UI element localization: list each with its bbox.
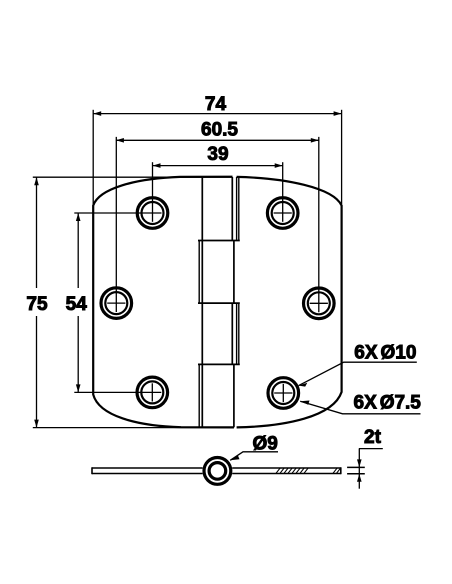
side view hatch group 1 (276, 468, 308, 473)
leader 6X Ø7.5 (300, 401, 420, 414)
side view bar left bottom edge (92, 473, 203, 475)
dim 60.5 line (116, 139, 319, 141)
svg-text:6X: 6X (354, 343, 378, 364)
side view bar left top edge (92, 467, 203, 469)
dim 54 extension bottom (74, 391, 161, 393)
side view knuckle ring inner (pin hole) (209, 463, 226, 480)
svg-text:75: 75 (26, 294, 48, 315)
crosshair hole bottom-left vertical (151, 383, 153, 401)
plate left leaf outline (93, 177, 234, 428)
arrowhead dim 2t top (357, 459, 362, 467)
dim 74 extension left (92, 110, 94, 204)
dim 75 extension top (33, 176, 233, 178)
dim 2t underline (359, 448, 383, 450)
arrowhead dim 75 bottom (34, 420, 39, 428)
knuckle step line 3 (198, 363, 240, 365)
arrowhead dim 75 top (34, 177, 39, 185)
dim 60.5 extension right (318, 137, 320, 312)
side view bar right top edge (232, 467, 341, 469)
svg-text:Ø10: Ø10 (381, 343, 417, 364)
knuckle bend line left leaf (201, 177, 203, 427)
dim 2t extension tick top (347, 466, 365, 468)
dim 54 line upper part (77, 213, 79, 288)
plate right leaf outline (237, 177, 342, 428)
hole top-right inner (272, 202, 294, 224)
arrowhead leader 6X Ø7.5 (300, 401, 309, 405)
arrowhead dim 39 right (275, 163, 283, 168)
dim 60.5 extension left (115, 137, 117, 312)
arrowhead dim 74 left (93, 111, 101, 116)
svg-text:60.5: 60.5 (201, 120, 238, 141)
hole bottom-left inner (141, 381, 163, 403)
dim 39 line (153, 165, 283, 167)
svg-text:6X: 6X (354, 392, 378, 413)
svg-text:Ø9: Ø9 (253, 433, 278, 454)
knuckle step line 1 (198, 240, 240, 242)
hole bottom-left outer (137, 377, 168, 408)
crosshair hole bottom-right horizontal (274, 392, 292, 394)
svg-text:39: 39 (207, 144, 228, 165)
dim 75 extension bottom (33, 427, 234, 429)
dim 74 line (93, 113, 341, 115)
hole mid-right inner (308, 292, 330, 314)
knuckle tab edge segment 2 (198, 241, 200, 304)
knuckle tab edge segment 3 (231, 303, 233, 364)
knuckle right vertical segment 2 (233, 241, 235, 304)
dim 39 extension right (282, 162, 284, 222)
arrowhead dim 60.5 left (116, 138, 124, 143)
knuckle tab edge segment 1 (231, 177, 233, 241)
arrowhead dim 60.5 right (311, 138, 319, 143)
arrowhead leader 6X Ø10 (299, 383, 308, 387)
hole top-left inner (142, 202, 164, 224)
leader Ø9 (230, 452, 278, 461)
knuckle right vertical segment 4 (233, 364, 235, 427)
knuckle right leaf edge double line segment 1 (236, 177, 238, 241)
side view hatch group 2 at right end (333, 468, 341, 473)
arrowhead dim 2t bottom (357, 474, 362, 482)
hole mid-right outer (304, 288, 335, 319)
dim 39 extension left (152, 162, 154, 222)
knuckle right leaf edge double line segment 3 (236, 303, 238, 364)
arrowhead dim 54 top (76, 213, 81, 221)
arrowhead dim 54 bottom (76, 384, 81, 392)
svg-text:2t: 2t (364, 427, 382, 448)
dim 75 line upper part (36, 177, 38, 288)
hole mid-left inner (105, 292, 127, 314)
side view bar left end cap (91, 467, 93, 474)
hole top-right outer (267, 198, 298, 229)
side view knuckle ring outer (204, 458, 231, 485)
hole bottom-right inner (272, 382, 294, 404)
dim 74 extension right (341, 110, 343, 204)
dim 75 line lower part (36, 316, 38, 428)
arrowhead dim 74 right (334, 111, 342, 116)
svg-text:Ø7.5: Ø7.5 (380, 392, 422, 413)
dim 2t extension tick bottom (347, 473, 365, 475)
hole bottom-right outer (268, 378, 299, 409)
hole top-left outer (137, 198, 168, 229)
knuckle tab edge segment 4 (198, 364, 200, 427)
crosshair hole bottom-right vertical (282, 384, 284, 402)
crosshair hole mid-right horizontal (310, 302, 328, 304)
side view bar right bottom edge (232, 473, 341, 475)
arrowhead dim 39 left (153, 163, 161, 168)
crosshair hole mid-left horizontal (107, 302, 125, 304)
knuckle step line 2 (198, 302, 240, 304)
hole mid-left outer (101, 288, 132, 319)
dim 54 extension top (74, 212, 161, 214)
crosshair hole top-right horizontal (274, 212, 292, 214)
svg-text:54: 54 (66, 294, 88, 315)
leader 6X Ø10 (299, 362, 417, 385)
dim 54 line lower part (77, 316, 79, 392)
svg-text:74: 74 (205, 94, 227, 115)
side view bar right end cap (340, 467, 342, 474)
arrowhead leader Ø9 (230, 455, 239, 460)
dim 2t vertical line (358, 449, 360, 489)
